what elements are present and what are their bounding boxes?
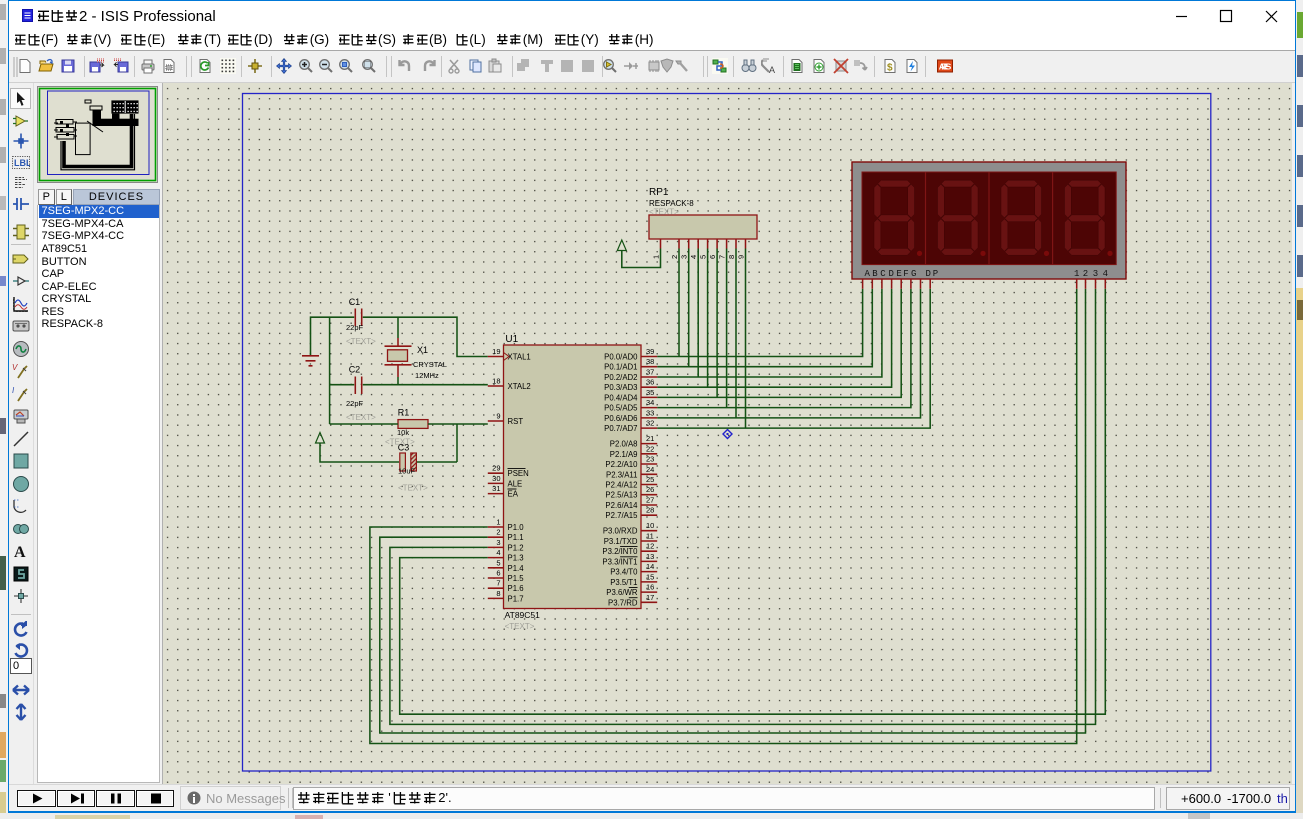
svg-text:P2.4/A12: P2.4/A12 xyxy=(605,481,637,490)
svg-text:C: C xyxy=(880,269,886,279)
svg-text:33: 33 xyxy=(646,408,654,417)
svg-text:ALE: ALE xyxy=(508,479,523,488)
svg-text:CRYSTAL: CRYSTAL xyxy=(413,360,447,369)
svg-text:LBL: LBL xyxy=(14,158,30,168)
svg-text:14: 14 xyxy=(646,562,654,571)
svg-text:A: A xyxy=(864,269,870,279)
svg-text:<TEXT>: <TEXT> xyxy=(346,413,376,422)
svg-text:P1.3: P1.3 xyxy=(508,554,524,563)
svg-text:PSEN: PSEN xyxy=(508,469,529,478)
svg-text:P2.1/A9: P2.1/A9 xyxy=(610,450,638,459)
svg-text:U1: U1 xyxy=(505,334,518,345)
svg-text:35: 35 xyxy=(646,388,654,397)
svg-text:P0.1/AD1: P0.1/AD1 xyxy=(604,363,637,372)
svg-text:8: 8 xyxy=(727,255,736,259)
svg-text:C1: C1 xyxy=(349,297,361,307)
svg-text:15: 15 xyxy=(646,572,654,581)
svg-text:RP1: RP1 xyxy=(649,187,669,198)
svg-text:P1.0: P1.0 xyxy=(508,523,525,532)
svg-text:24: 24 xyxy=(646,465,654,474)
svg-text:10k: 10k xyxy=(397,428,409,437)
svg-text:V: V xyxy=(12,363,18,372)
svg-text:I: I xyxy=(12,386,15,395)
svg-text:P1.2: P1.2 xyxy=(508,543,524,552)
svg-text:23: 23 xyxy=(646,455,654,464)
svg-text:3: 3 xyxy=(496,538,500,547)
svg-text:P1.7: P1.7 xyxy=(508,594,524,603)
svg-text:13: 13 xyxy=(646,552,654,561)
svg-text:27: 27 xyxy=(646,496,654,505)
svg-text:4: 4 xyxy=(1103,269,1108,279)
svg-text:C3: C3 xyxy=(398,443,410,453)
svg-text:$: $ xyxy=(887,63,893,74)
svg-text:5: 5 xyxy=(496,558,500,567)
svg-text:<TEXT>: <TEXT> xyxy=(398,484,428,493)
svg-text:6: 6 xyxy=(708,255,717,259)
svg-text:<TEXT>: <TEXT> xyxy=(346,337,376,346)
svg-text:P0.3/AD3: P0.3/AD3 xyxy=(604,383,637,392)
svg-text:12MHz: 12MHz xyxy=(415,371,439,380)
svg-text:1: 1 xyxy=(1074,269,1079,279)
svg-text:7: 7 xyxy=(718,255,727,259)
svg-text:10uF: 10uF xyxy=(398,467,416,476)
svg-text:12: 12 xyxy=(646,542,654,551)
svg-text:19: 19 xyxy=(492,347,500,356)
svg-text:32: 32 xyxy=(646,419,654,428)
svg-text:3: 3 xyxy=(680,255,689,259)
svg-text:P0.2/AD2: P0.2/AD2 xyxy=(604,373,637,382)
svg-text:ARES: ARES xyxy=(939,62,952,72)
svg-text:P2.3/A11: P2.3/A11 xyxy=(606,470,638,479)
svg-text:P3.5/T1: P3.5/T1 xyxy=(610,578,637,587)
svg-text:36: 36 xyxy=(646,378,654,387)
svg-text:28: 28 xyxy=(646,506,654,515)
svg-text:2: 2 xyxy=(1083,269,1088,279)
svg-text:P0.4/AD4: P0.4/AD4 xyxy=(604,393,638,402)
svg-text:22pF: 22pF xyxy=(346,323,364,332)
svg-text:34: 34 xyxy=(646,398,654,407)
svg-text:30: 30 xyxy=(492,474,500,483)
svg-text:1: 1 xyxy=(496,518,500,527)
svg-text:5: 5 xyxy=(699,255,708,259)
svg-text:P1.1: P1.1 xyxy=(508,533,524,542)
svg-text:P: P xyxy=(933,269,938,279)
svg-text:7: 7 xyxy=(496,579,500,588)
svg-text:8: 8 xyxy=(496,589,500,598)
svg-text:4: 4 xyxy=(496,548,500,557)
svg-text:XTAL2: XTAL2 xyxy=(508,382,531,391)
svg-text:26: 26 xyxy=(646,485,654,494)
svg-text:P0.6/AD6: P0.6/AD6 xyxy=(604,414,637,423)
svg-text:F: F xyxy=(903,269,908,279)
svg-text:D: D xyxy=(888,269,893,279)
svg-text:39: 39 xyxy=(646,347,654,356)
svg-text:P0.7/AD7: P0.7/AD7 xyxy=(604,424,637,433)
svg-text:11: 11 xyxy=(646,532,654,541)
svg-text:P1.6: P1.6 xyxy=(508,584,524,593)
svg-text:6: 6 xyxy=(496,569,500,578)
svg-text:P3.0/RXD: P3.0/RXD xyxy=(603,527,638,536)
svg-text:9: 9 xyxy=(737,255,746,259)
svg-text:17: 17 xyxy=(646,593,654,602)
svg-text:22: 22 xyxy=(646,444,654,453)
svg-text:9: 9 xyxy=(496,412,500,421)
svg-text:P2.2/A10: P2.2/A10 xyxy=(605,460,638,469)
svg-text:1: 1 xyxy=(652,255,661,259)
svg-text:P3.6/WR: P3.6/WR xyxy=(606,588,638,597)
svg-text:<TEXT>: <TEXT> xyxy=(505,622,535,631)
svg-text:B: B xyxy=(872,269,878,279)
svg-text:P2.0/A8: P2.0/A8 xyxy=(610,440,638,449)
svg-text:RST: RST xyxy=(508,417,524,426)
svg-text:G: G xyxy=(911,269,916,279)
svg-text:P3.2/INT0: P3.2/INT0 xyxy=(602,547,638,556)
svg-text:29: 29 xyxy=(492,464,500,473)
svg-text:P2.5/A13: P2.5/A13 xyxy=(605,491,637,500)
svg-text:38: 38 xyxy=(646,357,654,366)
svg-text:37: 37 xyxy=(646,368,654,377)
svg-text:31: 31 xyxy=(492,484,500,493)
svg-text:P3.4/T0: P3.4/T0 xyxy=(610,568,638,577)
svg-text:R1: R1 xyxy=(398,408,410,418)
svg-text:<TEXT>: <TEXT> xyxy=(649,208,679,217)
svg-text:P2.6/A14: P2.6/A14 xyxy=(605,501,638,510)
svg-text:18: 18 xyxy=(492,377,500,386)
svg-text:A: A xyxy=(14,544,26,560)
svg-text:P3.1/TXD: P3.1/TXD xyxy=(604,537,638,546)
svg-text:2: 2 xyxy=(496,528,500,537)
svg-text:P3.3/INT1: P3.3/INT1 xyxy=(602,557,637,566)
svg-text:2: 2 xyxy=(670,255,679,259)
svg-text:P1.5: P1.5 xyxy=(508,574,525,583)
svg-text:D: D xyxy=(925,269,930,279)
svg-text:21: 21 xyxy=(646,434,654,443)
svg-text:P3.7/RD: P3.7/RD xyxy=(608,598,638,607)
svg-text:A: A xyxy=(769,65,775,74)
svg-text:P0.0/AD0: P0.0/AD0 xyxy=(604,353,638,362)
svg-text:EA: EA xyxy=(508,490,519,499)
svg-text:3: 3 xyxy=(1093,269,1098,279)
svg-text:22pF: 22pF xyxy=(346,399,364,408)
svg-text:10: 10 xyxy=(646,521,654,530)
svg-text:X1: X1 xyxy=(417,345,428,355)
svg-text:25: 25 xyxy=(646,475,654,484)
svg-text:P0.5/AD5: P0.5/AD5 xyxy=(604,404,638,413)
svg-text:16: 16 xyxy=(646,583,654,592)
svg-text:AT89C51: AT89C51 xyxy=(505,610,541,620)
svg-text:P1.4: P1.4 xyxy=(508,564,525,573)
svg-text:P2.7/A15: P2.7/A15 xyxy=(605,511,638,520)
svg-text:XTAL1: XTAL1 xyxy=(508,353,531,362)
svg-text:4: 4 xyxy=(689,255,698,259)
svg-text:E: E xyxy=(896,269,901,279)
svg-text:C2: C2 xyxy=(349,365,361,375)
